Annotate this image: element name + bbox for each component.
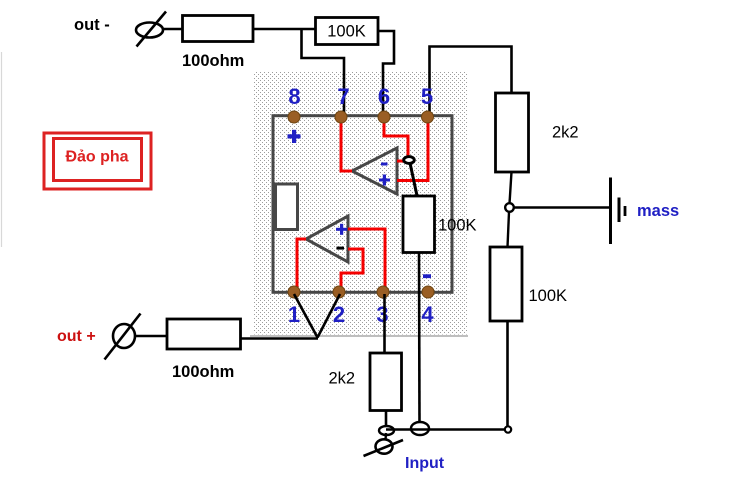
svg-text:mass: mass xyxy=(637,202,679,220)
wire node A to ground xyxy=(514,206,609,209)
red wire pin5 to U1A plus input xyxy=(397,117,428,181)
pin 8 dot xyxy=(288,111,300,123)
svg-text:2k2: 2k2 xyxy=(552,124,579,142)
pin 7 dot xyxy=(335,111,347,123)
wire pin2 V branch xyxy=(318,294,341,338)
svg-text:2k2: 2k2 xyxy=(329,370,356,388)
IC U1 body outline xyxy=(273,116,452,293)
node A ring xyxy=(505,203,514,212)
wire pin3 to R6 xyxy=(383,294,386,353)
red wire pin6 to pot wiper xyxy=(384,117,408,156)
svg-text:100ohm: 100ohm xyxy=(182,52,244,70)
node B junction xyxy=(505,426,511,432)
V+ plus mark near pin 8 xyxy=(288,130,301,143)
wire pin1 V branch xyxy=(294,294,318,338)
connector J1 (out -) xyxy=(136,12,166,47)
wire J1 to R1 xyxy=(163,28,183,31)
U1A minus mark xyxy=(381,163,388,166)
pin 5 dot xyxy=(422,111,434,123)
input bus big ellipse xyxy=(411,422,429,435)
red wire pin7 to U1A output xyxy=(341,117,352,171)
red wire U1B output to pin1 xyxy=(297,239,306,292)
svg-text:6: 6 xyxy=(378,84,390,109)
wire R1 to R2 xyxy=(253,28,316,31)
svg-text:100ohm: 100ohm xyxy=(172,363,234,381)
op-amp U1B (bottom, pointing left) xyxy=(306,216,348,262)
U1A plus mark xyxy=(379,175,390,186)
U1B minus mark xyxy=(337,247,345,250)
svg-text:8: 8 xyxy=(288,84,300,109)
resistor R5 100ohm (bottom) xyxy=(167,319,241,349)
ground (mass) symbol xyxy=(611,178,626,245)
connector J2 (out +) xyxy=(105,314,141,360)
pin 1 dot xyxy=(288,286,300,298)
potentiometer wiper arm xyxy=(410,163,418,198)
svg-text:out +: out + xyxy=(57,328,96,345)
pin 2 dot xyxy=(333,286,345,298)
U1B plus mark xyxy=(336,224,347,235)
svg-text:Đảo pha: Đảo pha xyxy=(65,149,128,166)
resistor R3 2k2 (right top) xyxy=(496,93,529,172)
connector J3 (Input) xyxy=(364,439,404,456)
svg-text:Input: Input xyxy=(405,455,445,472)
wire R2 to pin 6 xyxy=(378,31,394,116)
wire junction to pin 7 xyxy=(302,29,345,116)
resistor R2 100K (feedback box top) xyxy=(316,18,379,45)
resistor R1 100ohm (top) xyxy=(183,16,254,42)
svg-text:7: 7 xyxy=(337,84,349,109)
pin 4 dot xyxy=(422,286,434,298)
V- minus mark near pin 4 xyxy=(423,274,431,278)
label Dao pha box outer xyxy=(44,133,151,189)
link to input connector xyxy=(384,433,387,440)
gray baseline under IC package xyxy=(250,335,468,337)
wire input bus xyxy=(386,428,505,431)
red wire U1A inverting stub xyxy=(397,160,405,163)
wire VR1 bottom to input ellipse xyxy=(418,252,421,423)
wire pin 5 to R3 xyxy=(430,47,512,117)
wire J2 to R5 xyxy=(135,335,168,338)
resistor R6 2k2 (bottom) xyxy=(370,353,402,411)
svg-text:100K: 100K xyxy=(327,23,366,41)
IC U1 stippled package background xyxy=(253,72,468,335)
pin 3 dot xyxy=(377,286,389,298)
svg-text:4: 4 xyxy=(421,302,434,327)
svg-text:out -: out - xyxy=(74,16,110,34)
svg-text:100K: 100K xyxy=(529,287,568,305)
wire R3 to node A xyxy=(510,172,512,204)
wire R4 to node B xyxy=(506,321,509,427)
red wire U1B minus to pin2 xyxy=(341,249,363,292)
red wire U1B plus to pin3 xyxy=(348,229,385,292)
svg-text:3: 3 xyxy=(376,302,388,327)
wire R5 to pins 1,2 xyxy=(241,337,319,340)
potentiometer VR1 100K body xyxy=(403,196,435,253)
input node small ellipse xyxy=(379,426,394,435)
resistor R4 100K (right bottom) xyxy=(490,247,522,321)
label Dao pha box inner xyxy=(54,139,142,181)
wire node A to R4 xyxy=(508,212,510,247)
wire R6 to input node xyxy=(385,411,388,428)
op-amp U1A (top, pointing left) xyxy=(352,148,397,194)
svg-text:1: 1 xyxy=(288,302,300,327)
svg-text:100K: 100K xyxy=(438,217,477,235)
faint window border left edge xyxy=(1,52,3,247)
pin 6 dot xyxy=(378,111,390,123)
svg-text:5: 5 xyxy=(421,84,433,109)
potentiometer wiper circle xyxy=(404,157,415,164)
internal resistor block (left) xyxy=(276,184,298,230)
